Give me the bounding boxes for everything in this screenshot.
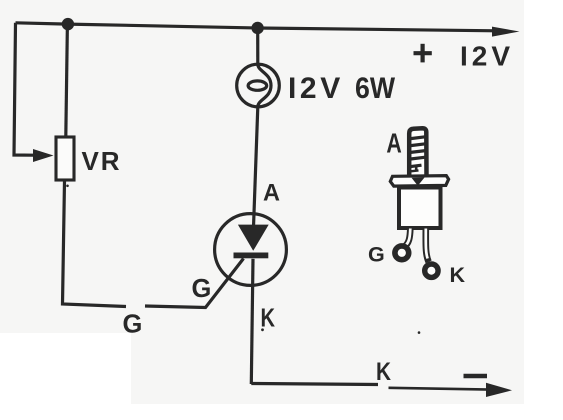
package: gate eyelet — [395, 246, 409, 260]
junction dot: left node — [62, 18, 74, 30]
lamp envelope — [237, 64, 280, 107]
package: threaded stud (anode) — [409, 128, 426, 177]
arrowhead: +12V supply — [492, 27, 520, 37]
package: cathode lead — [426, 229, 429, 262]
label: minus terminal — [464, 374, 488, 378]
wire: node down to lamp — [256, 28, 259, 65]
thyristor anode triangle — [238, 225, 269, 251]
package: hex flange — [390, 176, 448, 187]
wire: top supply bus — [16, 23, 498, 31]
wire: node to VR top — [66, 24, 68, 137]
package: gate lead — [405, 229, 411, 247]
arrowhead: negative lead — [486, 383, 512, 397]
lamp filament — [258, 64, 271, 107]
wire: VR bottom to gate run — [63, 181, 127, 307]
svg-text:I2V: I2V — [288, 72, 344, 105]
svg-text:I2V: I2V — [460, 40, 514, 71]
package: cathode eyelet — [425, 264, 438, 277]
potentiometer VR — [56, 137, 74, 180]
svg-text:A: A — [263, 179, 280, 206]
label: plus sign — [414, 51, 432, 55]
wire: bottom run — [251, 384, 378, 385]
package: flange centre wedge — [412, 178, 425, 186]
svg-text:R: R — [101, 146, 120, 176]
arrowhead: wiper — [33, 149, 54, 162]
svg-text:G: G — [368, 243, 385, 267]
wire: lamp to thyristor anode — [254, 107, 258, 227]
svg-text:G: G — [123, 311, 143, 339]
wire: gate run right segment and diagonal to gate — [145, 259, 244, 308]
ink speck — [418, 331, 421, 334]
wire: left branch down to wiper — [14, 23, 34, 155]
svg-text:6W: 6W — [355, 72, 396, 105]
svg-text:K: K — [450, 263, 466, 287]
svg-text:G: G — [192, 275, 212, 303]
svg-text:A: A — [386, 128, 401, 159]
svg-text:K: K — [261, 305, 276, 333]
svg-text:K: K — [376, 359, 391, 386]
thyristor envelope — [215, 214, 287, 286]
wire: negative lead — [389, 388, 491, 390]
thyristor cathode bar — [234, 253, 269, 259]
wire: cathode down — [251, 259, 253, 384]
svg-text:V: V — [82, 146, 100, 176]
junction dot: lamp node — [251, 22, 263, 34]
package: body — [399, 188, 441, 229]
